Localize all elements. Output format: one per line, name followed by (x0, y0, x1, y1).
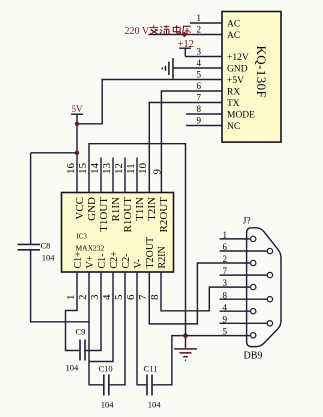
svg-text:IC3: IC3 (76, 233, 87, 241)
pin circle DB9-3 (251, 284, 256, 289)
wire KQ pin5 +5V route (77, 80, 222, 124)
svg-text:C11: C11 (144, 364, 158, 374)
svg-text:1: 1 (197, 13, 202, 23)
svg-text:5: 5 (197, 70, 202, 80)
label 220V AC (red) (125, 26, 150, 37)
svg-text:104: 104 (42, 253, 56, 263)
junction node VCC (dot2) (75, 151, 79, 155)
wire KQ pin3 line (185, 56, 222, 58)
svg-text:C2+: C2+ (109, 251, 120, 269)
svg-text:5V: 5V (72, 104, 84, 114)
svg-text:5: 5 (113, 294, 125, 300)
svg-text:T1IN: T1IN (134, 197, 146, 221)
svg-text:T1OUT: T1OUT (98, 197, 110, 232)
svg-text:220 V: 220 V (125, 26, 150, 37)
wire KQ pin8 MODE stub (186, 113, 222, 115)
wire MAX232 pin8 R2IN route to DB9 pin3 (161, 272, 251, 311)
svg-text:RX: RX (227, 87, 240, 97)
pin stub MAX232 pin14 (100, 158, 102, 193)
chip IC3 MAX232 body (62, 193, 174, 273)
svg-text:DB9: DB9 (244, 351, 263, 362)
pin circle DB9-2 (251, 260, 256, 265)
wire KQ pin4 GND line (173, 67, 222, 69)
svg-text:13: 13 (101, 163, 113, 175)
svg-text:6: 6 (197, 81, 202, 91)
capacitor C10 plates (104, 375, 109, 396)
connector J? DB9 body (247, 228, 281, 347)
svg-text:C1-: C1- (97, 254, 108, 269)
junction node 5V (dot1) (75, 122, 79, 126)
svg-text:6: 6 (125, 294, 137, 300)
power port 5V bar (71, 113, 83, 115)
svg-text:9: 9 (223, 314, 228, 324)
svg-text:NC: NC (227, 122, 240, 132)
label 电 glyph (173, 25, 180, 34)
svg-text:C10: C10 (99, 364, 113, 374)
wire DB9 pin6 stub (220, 250, 268, 252)
svg-text:7: 7 (197, 93, 202, 103)
svg-text:5: 5 (223, 326, 228, 336)
svg-text:6: 6 (223, 242, 228, 252)
wire DB9 pin9 stub (220, 322, 268, 324)
wire left rail down to C8 (30, 153, 32, 244)
svg-text:1: 1 (65, 295, 77, 301)
junction dot ground node (183, 333, 188, 338)
svg-text:12: 12 (113, 163, 125, 174)
wire MAX232 pin4 C2+ joins V+ rail (89, 272, 113, 362)
svg-text:J?: J? (243, 217, 251, 227)
wire DB9 pin1 stub (220, 238, 251, 240)
wire MAX232 pin2 V+ down to C10 (89, 272, 104, 385)
svg-text:2: 2 (77, 295, 89, 301)
svg-text:R1IN: R1IN (110, 197, 122, 222)
wire left rail below C8 to bottom (31, 250, 89, 322)
wire KQ pin9 NC stub (186, 125, 222, 127)
svg-text:4: 4 (223, 302, 228, 312)
svg-text:11: 11 (125, 163, 137, 174)
svg-text:3: 3 (89, 294, 101, 300)
svg-text:C1+: C1+ (73, 251, 84, 269)
pin circle DB9-5 (251, 333, 256, 338)
svg-text:MAX232: MAX232 (76, 244, 105, 253)
svg-text:104: 104 (148, 400, 162, 410)
ground symbol (left-facing) at KQ pin4 (162, 58, 173, 79)
label 流 glyph (160, 25, 170, 34)
capacitor C11 plates (147, 375, 152, 396)
svg-text:GND: GND (86, 197, 98, 221)
svg-text:104: 104 (101, 400, 115, 410)
wire MAX232 pin6 V- down to C11 (137, 272, 147, 385)
wire KQ pin1 stub (190, 22, 222, 24)
svg-text:3: 3 (197, 47, 202, 57)
wire +12 stub to pin3 (184, 48, 186, 56)
svg-text:GND: GND (227, 64, 248, 74)
svg-text:AC: AC (227, 19, 240, 29)
power port +12 bar (179, 47, 191, 49)
wire DB9 pin5 line through ground node (186, 335, 251, 337)
svg-text:AC: AC (227, 31, 240, 41)
svg-text:8: 8 (223, 290, 228, 300)
svg-text:1: 1 (223, 230, 228, 240)
svg-text:9: 9 (197, 116, 202, 126)
svg-text:7: 7 (137, 294, 149, 300)
svg-text:4: 4 (197, 58, 202, 68)
pin circle DB9-8 (267, 297, 272, 302)
svg-text:MODE: MODE (227, 110, 255, 120)
pin circle DB9-7 (267, 272, 272, 277)
svg-text:7: 7 (223, 266, 228, 276)
svg-text:8: 8 (149, 294, 161, 300)
wire MAX232 GND pin15 route to ground rail (89, 144, 186, 336)
pin stub MAX232 pin12 (124, 158, 126, 193)
pin circle DB9-9 (267, 321, 272, 326)
ground symbol bottom (174, 336, 197, 361)
svg-text:KQ-130F: KQ-130F (254, 46, 269, 99)
junction diamond on AC line (182, 32, 188, 38)
svg-text:R1OUT: R1OUT (122, 197, 134, 233)
svg-text:2: 2 (223, 254, 228, 264)
svg-text:104: 104 (66, 363, 80, 373)
wire DB9 pin4 stub (220, 310, 251, 312)
pin stub MAX232 pin11 (136, 158, 138, 193)
wire DB9 pin8 stub (220, 298, 268, 300)
svg-text:15: 15 (77, 163, 89, 175)
wire KQ pin6 RX route to MAX232 pin9 (161, 91, 222, 193)
svg-text:9: 9 (152, 169, 164, 175)
wire C10 right plate to MAX232 pin5 (109, 272, 125, 385)
pin circle DB9-6 (267, 248, 272, 253)
svg-text:C2-: C2- (121, 254, 132, 269)
pin stub MAX232 pin13 (112, 158, 114, 193)
svg-text:+5V: +5V (227, 76, 244, 86)
svg-text:VCC: VCC (74, 197, 86, 220)
wire MAX232 pin7 T2OUT route to DB9 pin2 (149, 263, 250, 324)
svg-text:14: 14 (89, 163, 101, 175)
svg-text:+12V: +12V (227, 53, 249, 63)
wire KQ pin7 TX route to MAX232 pin10 (149, 103, 222, 193)
wire C9 right plate to MAX232 pin3 (85, 272, 101, 351)
svg-text:C9: C9 (76, 327, 86, 337)
svg-text:C8: C8 (41, 241, 51, 251)
svg-text:V-: V- (133, 259, 144, 269)
module U2 KQ-130F body (222, 12, 281, 143)
capacitor C8 plates (18, 244, 40, 249)
pin circle DB9-1 (251, 236, 256, 241)
wire 5V stub down to VCC line (76, 114, 78, 192)
wire C11 right plate up to ground node (152, 336, 186, 385)
svg-text:T2OUT: T2OUT (145, 237, 156, 269)
label 交 glyph (150, 25, 159, 34)
label 压 glyph (183, 26, 191, 34)
pin circle DB9-4 (251, 309, 256, 314)
svg-text:8: 8 (197, 104, 202, 114)
wire KQ pin2 AC line (148, 34, 222, 36)
capacitor C9 plates (80, 340, 85, 361)
svg-text:10: 10 (137, 163, 149, 175)
svg-text:T2IN: T2IN (146, 197, 158, 221)
svg-text:16: 16 (65, 163, 77, 175)
svg-text:2: 2 (197, 25, 202, 35)
svg-text:V+: V+ (85, 255, 96, 268)
svg-text:R2OUT: R2OUT (158, 197, 170, 233)
wire DB9 pin7 stub (220, 274, 268, 276)
svg-text:TX: TX (227, 99, 240, 109)
wire MAX232 pin1 C1+ dogleg to C9 (66, 272, 81, 351)
wire left rail horizontal from VCC node (31, 152, 77, 154)
svg-text:R2IN: R2IN (157, 246, 168, 268)
svg-text:4: 4 (101, 294, 113, 300)
svg-text:3: 3 (223, 278, 228, 288)
